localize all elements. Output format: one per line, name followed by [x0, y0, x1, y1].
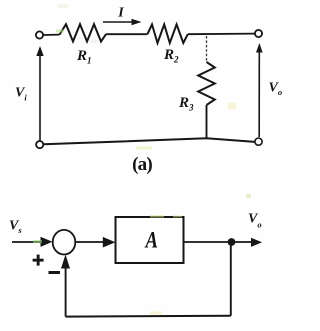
resistor R1	[60, 24, 107, 41]
svg-text:A: A	[144, 227, 158, 252]
amplifier block A	[116, 217, 184, 263]
wire input to summer	[12, 237, 52, 247]
bottom wire	[44, 138, 255, 144]
resistor R3	[198, 62, 215, 105]
minus sign	[49, 271, 61, 274]
terminal top-left	[36, 31, 43, 38]
wire R2 to top-right terminal	[188, 33, 255, 36]
wire R3 to bottom wire	[206, 105, 208, 139]
wire summer to block A	[76, 237, 116, 248]
node output dot	[228, 238, 236, 246]
feedback wire up to summer	[61, 255, 70, 317]
voltage arrow Vo	[256, 43, 263, 137]
svg-text:I: I	[117, 6, 124, 21]
wire junction to R3 (dashed lead)	[206, 36, 208, 62]
plus sign	[33, 255, 44, 266]
terminal bottom-right	[255, 138, 262, 145]
wire R1 to R2	[106, 33, 147, 35]
summing junction	[53, 230, 76, 255]
resistor R2	[147, 24, 187, 43]
wire top-left to R1	[44, 34, 60, 36]
feedback wire down	[230, 243, 232, 316]
feedback wire bottom	[66, 315, 231, 318]
wire block A to output	[184, 238, 262, 247]
current arrow I	[103, 19, 142, 26]
terminal bottom-left	[36, 141, 43, 148]
voltage arrow Vi	[36, 46, 43, 141]
svg-text:(a): (a)	[132, 154, 152, 175]
terminal top-right	[255, 30, 262, 37]
